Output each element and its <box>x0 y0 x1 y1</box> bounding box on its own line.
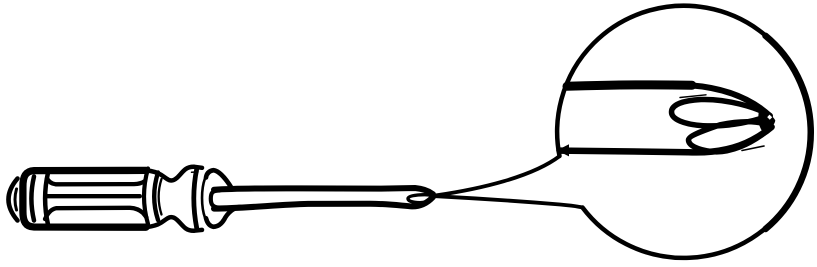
callout tail upper line <box>436 156 560 195</box>
ferrule left rim arc <box>194 169 197 229</box>
flute line 3 <box>45 208 147 219</box>
magnified tip convergence blob <box>758 108 775 132</box>
ferrule face lower-right contour into shaft <box>206 207 240 227</box>
neck top contour <box>146 167 202 181</box>
taper cone arc 2 <box>154 173 158 221</box>
magnifier circle <box>557 6 810 258</box>
magnified tip bottom line <box>560 127 772 152</box>
shaft base loop <box>211 190 220 207</box>
magnified lower petal <box>689 122 773 152</box>
ferrule face ellipse <box>206 170 232 188</box>
magnified tip bottom arrowhead <box>557 144 569 156</box>
taper cone arc 3 <box>159 179 162 215</box>
handle butt cap inner arc <box>15 189 17 210</box>
neck bottom contour <box>146 217 202 231</box>
shaft top line <box>214 188 433 194</box>
callout tail lower line <box>436 196 583 207</box>
taper cone arc 1 <box>144 169 148 225</box>
magnifier circle right-side heavier stroke <box>766 36 811 229</box>
sketch line above petal <box>680 95 706 98</box>
magnified tip top line <box>567 85 692 86</box>
handle butt seam arc 1 <box>31 177 34 221</box>
sketch line at ferrule top <box>192 171 199 173</box>
flute line 1 <box>47 179 145 185</box>
flute line 2 <box>46 194 140 198</box>
magnified tip top slope <box>690 85 770 116</box>
magnified tip white notch <box>767 115 772 120</box>
magnified upper petal <box>672 99 771 125</box>
handle grip outline <box>23 170 146 227</box>
handle butt seam arc 2 <box>45 173 48 225</box>
handle butt cap outer arc <box>9 179 18 221</box>
shaft tip petal <box>408 195 433 203</box>
shaft white channel <box>212 192 428 206</box>
ferrule face ellipse left thin arc <box>202 178 205 217</box>
sketch line below tip <box>742 146 764 151</box>
shaft bottom line <box>214 197 433 209</box>
